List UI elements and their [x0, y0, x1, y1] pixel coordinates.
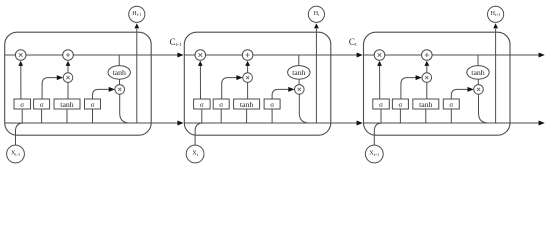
tanh box (candidate), cell 3: [413, 99, 439, 109]
svg-text:σ: σ: [219, 101, 223, 109]
output multiply node, cell 2: [295, 85, 305, 95]
add gate on C line, cell 2: [242, 50, 253, 61]
wire: forget sigma down stub to bus, cell 2: [201, 109, 203, 123]
sigma box (forget gate), cell 3: [373, 99, 390, 109]
svg-text:C: C: [349, 37, 355, 47]
wire: hidden state from cell 1 to cell 2: [151, 121, 183, 126]
LSTM cell 1 body: [5, 32, 152, 135]
input node X_t+1, cell 3: [365, 145, 383, 163]
svg-text:tanh: tanh: [112, 68, 126, 77]
svg-text:σ: σ: [449, 101, 453, 109]
wire: tanh box down stub to bus, cell 3: [425, 109, 427, 123]
multiply node (input gate x candidate), cell 2: [243, 73, 253, 83]
output multiply node, cell 1: [115, 85, 125, 95]
wire: input sigma down stub to bus, cell 1: [41, 109, 43, 123]
tanh ellipse (cell-state activation), cell 3: [467, 66, 489, 80]
wire: C line tap into tanh ellipse, cell 3: [477, 55, 479, 66]
wire: input sigma curved arrow into multiply node, cell 1: [42, 75, 63, 99]
sigma box (output gate), cell 2: [264, 99, 280, 109]
svg-text:tanh: tanh: [419, 100, 433, 109]
sigma box (input gate), cell 1: [34, 99, 50, 109]
sigma box (forget gate), cell 1: [14, 99, 31, 109]
multiply node (input gate x candidate), cell 3: [422, 73, 432, 83]
wire: hidden-state / input bus line through cell 1: [5, 122, 152, 124]
tanh ellipse (cell-state activation), cell 1: [108, 66, 130, 80]
wire: cell-state line C through cell 1: [5, 54, 152, 56]
output node H_t+1, cell 3: [488, 6, 504, 22]
wire: tanh box down stub to bus, cell 1: [66, 109, 68, 123]
svg-text:σ: σ: [379, 101, 383, 109]
input node X_t-1, cell 1: [7, 145, 25, 163]
svg-text:σ: σ: [91, 101, 95, 109]
wire: forget sigma down stub to bus, cell 1: [21, 109, 23, 123]
wire: multiply node to add gate, cell 2: [245, 61, 250, 73]
wire: C line tap into tanh ellipse, cell 1: [118, 55, 120, 66]
node label C_t-1: [170, 37, 182, 48]
wire: hidden-state / input bus line through cell 3: [364, 122, 511, 124]
multiply gate (forget) on C line, cell 1: [15, 50, 26, 61]
output multiply node, cell 3: [474, 85, 484, 95]
svg-text:σ: σ: [270, 101, 274, 109]
output node H_t-1, cell 1: [129, 6, 145, 22]
wire: hidden state output of cell 3: [510, 121, 545, 126]
wire: forget sigma up into multiply gate, cell 1: [18, 61, 23, 99]
wire: output multiply node down to bus, cell 2: [299, 94, 309, 123]
tanh box (candidate), cell 1: [54, 99, 80, 109]
wire: C state from cell 1 to cell 2: [151, 53, 183, 58]
sigma box (output gate), cell 1: [85, 99, 101, 109]
wire: output sigma curved arrow into output multiply node, cell 3: [451, 87, 473, 99]
add gate on C line, cell 1: [63, 50, 74, 61]
wire: output multiply node down to bus, cell 1: [120, 94, 130, 123]
add gate on C line, cell 3: [422, 50, 433, 61]
wire: tanh box up into multiply node, cell 3: [426, 82, 428, 99]
wire: tanh box up into multiply node, cell 1: [67, 82, 69, 99]
svg-text:t: t: [355, 43, 357, 48]
multiply gate (forget) on C line, cell 3: [374, 50, 385, 61]
wire: input X lead into bus, cell 3: [374, 123, 382, 145]
wire: forget sigma down stub to bus, cell 3: [380, 109, 382, 123]
output node H_t, cell 2: [308, 6, 324, 22]
svg-text:σ: σ: [40, 101, 44, 109]
wire: C state from cell 2 to cell 3: [331, 53, 363, 58]
sigma box (input gate), cell 2: [213, 99, 229, 109]
tanh box (candidate), cell 2: [234, 99, 260, 109]
wire: output riser to H circle, cell 2: [314, 23, 319, 123]
wire: input sigma curved arrow into multiply node, cell 3: [401, 75, 422, 99]
tanh ellipse (cell-state activation), cell 2: [288, 66, 310, 80]
multiply node (input gate x candidate), cell 1: [63, 73, 73, 83]
wire: input sigma down stub to bus, cell 2: [220, 109, 222, 123]
svg-text:tanh: tanh: [60, 100, 74, 109]
input node X_t, cell 2: [186, 145, 204, 163]
wire: input sigma down stub to bus, cell 3: [399, 109, 401, 123]
wire: input sigma curved arrow into multiply node, cell 2: [222, 75, 243, 99]
wire: multiply node to add gate, cell 1: [66, 61, 71, 73]
wire: forget sigma up into multiply gate, cell 2: [198, 61, 203, 99]
wire: multiply node to add gate, cell 3: [424, 61, 429, 73]
wire: tanh ellipse to output multiply node, cell 2: [298, 79, 300, 84]
wire: output sigma down stub to bus, cell 3: [450, 109, 452, 123]
wire: output sigma down stub to bus, cell 1: [92, 109, 94, 123]
wire: tanh box down stub to bus, cell 2: [246, 109, 248, 123]
wire: output multiply node down to bus, cell 3: [479, 94, 489, 123]
wire: output sigma down stub to bus, cell 2: [271, 109, 273, 123]
svg-text:σ: σ: [20, 101, 24, 109]
svg-text:σ: σ: [399, 101, 403, 109]
wire: input X lead into bus, cell 1: [16, 123, 24, 145]
wire: C state output of cell 3: [510, 53, 545, 58]
LSTM cell 2 body: [184, 32, 330, 135]
svg-text:C: C: [170, 37, 176, 47]
wire: hidden state from cell 2 to cell 3: [331, 121, 363, 126]
wire: cell-state line C through cell 2: [184, 54, 330, 56]
wire: tanh ellipse to output multiply node, cell 3: [477, 79, 479, 84]
svg-text:σ: σ: [200, 101, 204, 109]
sigma box (output gate), cell 3: [443, 99, 459, 109]
svg-text:t-1: t-1: [176, 43, 182, 48]
sigma box (input gate), cell 3: [392, 99, 408, 109]
wire: cell-state line C through cell 3: [364, 54, 511, 56]
wire: tanh ellipse to output multiply node, cell 1: [119, 79, 121, 84]
wire: forget sigma up into multiply gate, cell 3: [377, 61, 382, 99]
svg-text:tanh: tanh: [240, 100, 254, 109]
wire: output sigma curved arrow into output multiply node, cell 2: [272, 87, 294, 99]
wire: tanh box up into multiply node, cell 2: [247, 82, 249, 99]
node label C_t: [349, 37, 357, 48]
multiply gate (forget) on C line, cell 2: [195, 50, 206, 61]
svg-text:tanh: tanh: [292, 68, 306, 77]
sigma box (forget gate), cell 2: [194, 99, 211, 109]
wire: C line tap into tanh ellipse, cell 2: [298, 55, 300, 66]
wire: hidden-state / input bus line through cell 2: [184, 122, 330, 124]
wire: output sigma curved arrow into output multiply node, cell 1: [93, 87, 115, 99]
wire: output riser to H circle, cell 1: [134, 23, 139, 123]
LSTM cell 3 body: [364, 32, 511, 135]
svg-text:tanh: tanh: [471, 68, 485, 77]
wire: input X lead into bus, cell 2: [195, 123, 203, 145]
wire: output riser to H circle, cell 3: [493, 23, 498, 123]
